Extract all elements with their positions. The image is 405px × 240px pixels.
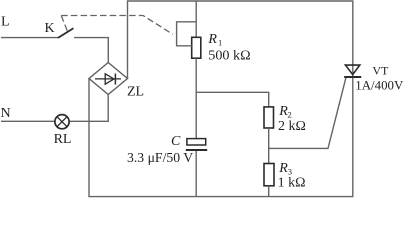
svg-text:1 kΩ: 1 kΩ bbox=[278, 176, 306, 191]
svg-text:1A/400V: 1A/400V bbox=[355, 78, 404, 93]
switch K bbox=[58, 28, 73, 38]
wire R3 to bottom rail bbox=[268, 186, 270, 197]
svg-text:R: R bbox=[278, 161, 288, 176]
svg-text:N: N bbox=[1, 106, 11, 121]
wire L line bbox=[1, 37, 58, 39]
svg-text:L: L bbox=[1, 15, 10, 30]
svg-text:ZL: ZL bbox=[127, 85, 144, 100]
wire capacitor to bottom rail bbox=[195, 151, 197, 197]
wire N line to bridge bbox=[1, 95, 108, 122]
svg-text:VT: VT bbox=[372, 63, 389, 77]
lamp RL bbox=[54, 115, 72, 148]
wire DC bus: right vertex up, top rail, right rail, bottom rail, up to left vertex bbox=[89, 1, 353, 197]
wire gate link from R2-R3 junction to thyristor bbox=[269, 77, 346, 148]
svg-text:C: C bbox=[171, 134, 181, 149]
resistor R2 bbox=[264, 107, 274, 128]
wire bypass box around R1 bbox=[177, 22, 197, 46]
resistor R1 bbox=[192, 37, 201, 58]
svg-text:2 kΩ: 2 kΩ bbox=[278, 119, 306, 134]
wire dashed mechanical link bbox=[61, 16, 173, 35]
wire switch to bridge top bbox=[74, 38, 108, 63]
svg-text:500 kΩ: 500 kΩ bbox=[208, 48, 250, 63]
thyristor VT bbox=[344, 63, 404, 92]
svg-text:RL: RL bbox=[54, 132, 72, 147]
wire center branch from top rail bbox=[195, 1, 197, 37]
capacitor C bbox=[127, 134, 207, 166]
wire R2 to R3 bbox=[268, 128, 270, 164]
svg-text:1: 1 bbox=[218, 37, 222, 47]
svg-text:R: R bbox=[207, 32, 217, 47]
bridge rectifier ZL bbox=[89, 63, 144, 100]
svg-text:K: K bbox=[45, 21, 55, 36]
wire to R2 branch bbox=[196, 92, 269, 107]
resistor R3 bbox=[264, 164, 274, 186]
svg-text:3.3 μF/50 V: 3.3 μF/50 V bbox=[127, 151, 193, 166]
wire center branch below R1 bbox=[195, 58, 197, 138]
